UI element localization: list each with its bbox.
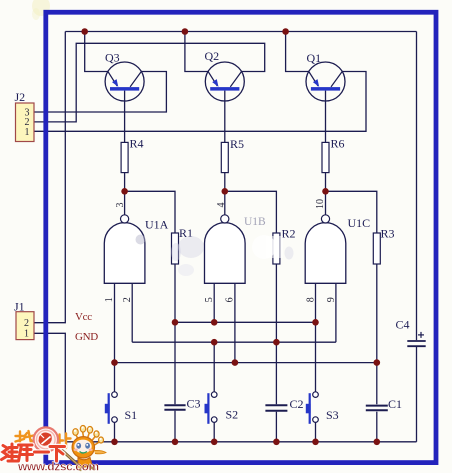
capacitor C4 polarized: [396, 318, 426, 347]
svg-text:S1: S1: [125, 408, 138, 422]
wire C3 bottom to ground rail: [174, 411, 176, 442]
svg-text:J2: J2: [15, 90, 26, 104]
svg-text:C1: C1: [388, 397, 402, 411]
wire node C horizontal bus: [115, 362, 377, 364]
svg-text:Q2: Q2: [205, 49, 220, 63]
svg-text:R6: R6: [331, 137, 345, 151]
transistor Q2: [205, 49, 245, 101]
svg-text:10: 10: [315, 199, 326, 209]
wire R2 bottom to node B and C2 top: [275, 264, 277, 404]
wire top Vcc rail: [65, 31, 416, 33]
wire S2 top from node B: [213, 342, 215, 392]
wire Q2 base to R5: [224, 91, 226, 143]
svg-text:5: 5: [204, 297, 215, 302]
svg-text:6: 6: [225, 297, 236, 302]
wire GND vertical from J1 pin1 to bottom rail: [34, 333, 66, 442]
watermark text weiku-yixia drawn strokes: [2, 444, 65, 461]
op-amp U1A nand gate: [104, 203, 169, 303]
capacitor C2: [265, 397, 303, 411]
resistor R3: [373, 227, 394, 265]
wire node B horizontal bus: [132, 341, 336, 343]
svg-text:2: 2: [24, 318, 29, 329]
wire U1A output node to bubble: [124, 191, 126, 215]
wire Q3 emitter feed: [85, 32, 108, 72]
svg-text:Vcc: Vcc: [75, 311, 92, 323]
wire Vcc left vertical to J1 pin2: [34, 32, 66, 323]
watermark text pian (piece) drawn strokes: [60, 434, 71, 450]
svg-text:2: 2: [122, 297, 133, 302]
op-amp U1C nand gate: [305, 199, 370, 302]
wei char strokes: [2, 444, 18, 461]
wire S3 bottom to ground rail: [315, 422, 317, 441]
watermark mascot: [58, 426, 107, 472]
transistor Q1: [306, 51, 345, 101]
svg-text:U1A: U1A: [145, 218, 169, 232]
wire bottom ground rail: [65, 441, 416, 443]
wire Q3 collector to J2 pin 3: [34, 72, 167, 113]
wire Q2 emitter feed: [185, 32, 208, 72]
wire C2 bottom to ground rail: [275, 412, 277, 442]
watermark text zhao (find) drawn strokes: [16, 431, 35, 446]
svg-text:C2: C2: [290, 397, 304, 411]
wire U1B output node to bubble: [224, 191, 226, 215]
svg-text:GND: GND: [75, 331, 98, 343]
wire U1C input pin8 down through node A to S3: [315, 283, 317, 392]
svg-text:3: 3: [115, 203, 126, 208]
wire C1 bottom to ground rail: [376, 412, 378, 442]
svg-text:R4: R4: [130, 137, 144, 151]
wire U1A output node to R1 top: [125, 191, 175, 233]
resistor R5: [221, 137, 244, 173]
wire U1C input pin9 down to node B: [335, 283, 337, 342]
wire Q1 emitter feed: [286, 32, 309, 72]
wire U1B input pin6 down to node C: [234, 283, 236, 362]
transistor Q3: [105, 51, 144, 102]
wire U1C output node to bubble: [325, 191, 327, 215]
wire C4 bottom to ground rail corner: [416, 347, 418, 442]
resistor R6: [322, 137, 345, 173]
svg-text:Q1: Q1: [307, 51, 322, 65]
svg-text:1: 1: [25, 127, 30, 138]
svg-text:C3: C3: [187, 397, 201, 411]
xia char strokes: [50, 447, 65, 462]
ku char strokes: [19, 445, 33, 461]
wire U1C output node to R3 top: [326, 191, 377, 233]
yi char stroke: [35, 451, 49, 454]
switch S1: [105, 392, 137, 424]
wire U1A input pin2 down to node B: [131, 283, 133, 342]
svg-text:S3: S3: [326, 408, 339, 422]
svg-text:1: 1: [104, 297, 115, 302]
connector J2: [15, 90, 35, 142]
svg-text:S2: S2: [226, 408, 239, 422]
wire Q2 collector to J2 pin 2: [34, 43, 265, 122]
svg-text:9: 9: [326, 297, 337, 302]
svg-text:U1B: U1B: [244, 216, 266, 228]
svg-text:U1C: U1C: [348, 216, 371, 230]
wire U1B input pin5 down to node A: [213, 283, 215, 322]
svg-text:J1: J1: [14, 300, 25, 314]
wire R3 bottom to node C and C1 top: [376, 264, 378, 404]
wire Q3 base to R4: [124, 91, 126, 143]
wire R1 bottom to node A and C3 top: [174, 264, 176, 404]
svg-text:R3: R3: [381, 227, 395, 241]
switch S2: [205, 392, 239, 424]
resistor R2: [273, 227, 296, 265]
capacitor C1: [366, 397, 402, 411]
wire S2 bottom to ground rail: [213, 422, 215, 441]
svg-text:1: 1: [24, 328, 29, 339]
wire right vertical rail to C4 top: [416, 32, 418, 341]
svg-text:8: 8: [305, 297, 316, 302]
node junction dots: [81, 28, 380, 445]
watermark logo circle: [34, 427, 58, 451]
svg-text:4: 4: [216, 203, 227, 208]
svg-text:C4: C4: [396, 318, 410, 332]
wire U1A input pin1 down to node C and S1: [114, 283, 116, 392]
resistor R1: [172, 226, 194, 264]
svg-text:R5: R5: [230, 137, 244, 151]
svg-text:Q3: Q3: [105, 51, 120, 65]
switch S3: [306, 392, 339, 424]
wire Q1 base to R6: [325, 91, 327, 143]
wire Q1 collector to J2 pin 1: [34, 72, 367, 132]
wire R5 bottom to U1B output node: [224, 173, 226, 192]
wire R6 bottom to U1C output node: [325, 173, 327, 192]
watermark faint smudges over gates: [136, 235, 294, 277]
svg-text:www.dzsc.com: www.dzsc.com: [17, 460, 99, 473]
svg-text:R2: R2: [282, 227, 296, 241]
wire S1 bottom to ground rail: [114, 422, 116, 441]
wire R4 bottom to U1A output node: [124, 173, 126, 192]
op-amp U1B nand gate: [204, 203, 266, 303]
capacitor C3: [164, 397, 200, 411]
wire node A horizontal bus: [175, 321, 316, 323]
wire U1B output node to R2 top: [225, 191, 277, 233]
resistor R4: [121, 137, 143, 173]
connector J1: [14, 300, 34, 340]
